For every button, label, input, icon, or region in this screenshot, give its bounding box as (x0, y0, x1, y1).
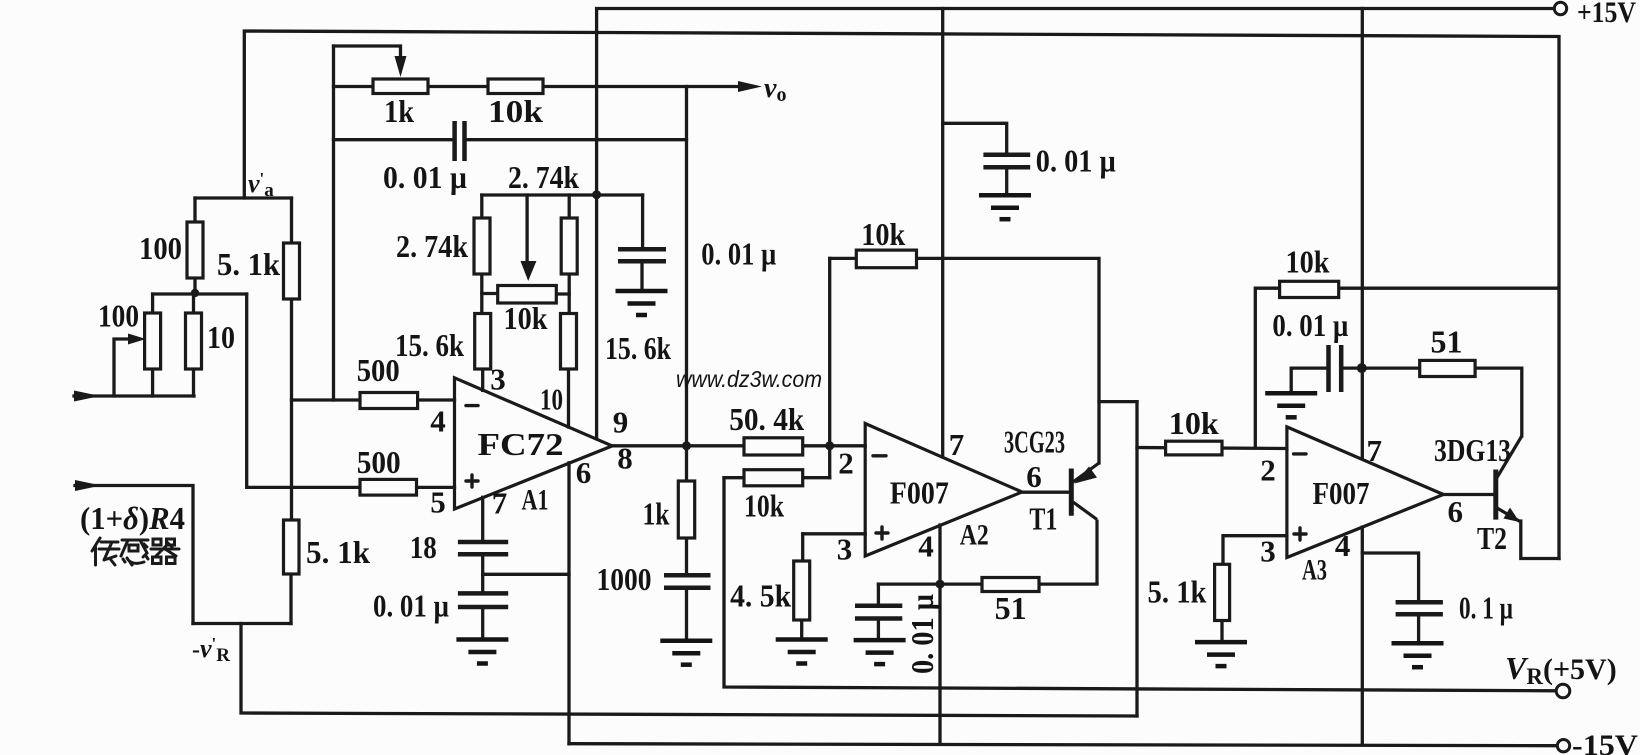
svg-text:500: 500 (357, 352, 400, 388)
ground (4.5k) (776, 640, 828, 664)
wire: A1 inverting input line (292, 398, 455, 401)
svg-text:10k: 10k (744, 488, 784, 524)
node v'a: horizontal wire (195, 196, 292, 199)
svg-text:15. 6k: 15. 6k (395, 327, 464, 363)
svg-text:5. 1k: 5. 1k (217, 246, 280, 282)
wire: 100 lower resistor lead (151, 294, 154, 396)
svg-text:0. 01 µ: 0. 01 µ (701, 236, 776, 272)
wire: 4.5k upper lead (801, 534, 804, 561)
op-amp A3 F007 triangle (1287, 427, 1444, 558)
resistor 50.4k (A1 to A2) (744, 438, 803, 455)
wire: -15V bottom rail (569, 744, 1557, 746)
resistor 51 (T1 collector) (982, 578, 1039, 592)
svg-text:0. 01 µ: 0. 01 µ (383, 159, 467, 195)
capacitor 0.01u (A1 pin 7 lower) (458, 591, 508, 596)
wire: 1k to 1000 cap (685, 538, 688, 574)
arrow: 10k pot wiper (down) (521, 261, 537, 281)
label sensor chinese 传感器 (92, 538, 179, 565)
svg-text:4: 4 (1335, 528, 1351, 563)
capacitor 0.01u (A3 comp), vertical plates (1326, 345, 1331, 392)
resistor 1k (A1 output) (678, 481, 694, 538)
wire: bridge junction horizontal (153, 292, 247, 295)
wire: 10k pot right lead (556, 292, 569, 295)
svg-text:F007: F007 (890, 475, 949, 511)
wire: 10k pot left lead (482, 292, 498, 295)
svg-text:1k: 1k (643, 496, 670, 532)
wire: 18/0.01u caps midpoint (481, 556, 484, 593)
svg-text:3DG13: 3DG13 (1434, 432, 1511, 468)
wire: A2 output to T1 base (1022, 491, 1071, 494)
potentiometer 1k (A1 feedback trim) (373, 79, 428, 94)
arrow: input 1 (74, 391, 100, 402)
node -v'R: horizontal wire (193, 622, 291, 625)
svg-text:FC72: FC72 (478, 426, 564, 462)
svg-text:A3: A3 (1302, 554, 1327, 587)
wire: 5.1k upper leads and mid vertical (290, 198, 293, 520)
junction: A1 output node (682, 441, 691, 450)
wire: input 1 line (74, 394, 194, 397)
svg-text:18: 18 (410, 529, 437, 565)
junction: A2 + network node (936, 580, 945, 589)
A2 plus symbol (876, 531, 888, 534)
A3 plus symbol (1294, 532, 1306, 535)
svg-text:9: 9 (613, 405, 629, 440)
wire: 0.01u feedback cap line right (467, 138, 687, 141)
wire: 10k pot wiper arrow (525, 195, 528, 262)
svg-text:10: 10 (540, 382, 563, 417)
wire: pin7 decoupling cap stub (943, 123, 1007, 153)
wire: T-network cap lower lead (640, 262, 643, 289)
svg-text:7: 7 (492, 486, 508, 521)
svg-text:T1: T1 (1029, 501, 1057, 537)
wire: 100 top resistor leads (193, 198, 196, 294)
resistor 2.74k (right T-network) (561, 218, 577, 274)
svg-text:3CG23: 3CG23 (1004, 424, 1065, 460)
op-amp A1 FC72 triangle (455, 378, 613, 509)
junction: bridge node (191, 289, 199, 297)
wire: v_o output line (543, 85, 740, 88)
wire: input 2 line (75, 486, 193, 624)
transistor T2 3DG13 (NPN) (1496, 436, 1522, 522)
wire: 51/0.01u node line (878, 582, 1097, 585)
wire: A3 pin 7 vertical to +15V (1361, 9, 1364, 458)
svg-text:100: 100 (98, 298, 139, 334)
svg-text:6: 6 (1447, 494, 1463, 529)
junction: A2 inverting input node (825, 441, 834, 450)
resistor 500 (A1 - input) (360, 393, 418, 409)
wire: T2 emitter to v'a riser (1521, 521, 1559, 559)
wire: 0.01u feedback cap line (334, 138, 453, 141)
svg-text:50. 4k: 50. 4k (729, 401, 804, 437)
svg-text:4: 4 (430, 404, 446, 439)
wire: 2.74k T-network top line (482, 193, 643, 196)
wire: vertical from 1k pot to - input (332, 46, 335, 400)
capacitor 0.01u (T-network node to ground) (618, 247, 666, 252)
resistor 51 (T2 collector) (1420, 360, 1475, 376)
svg-text:10k: 10k (504, 300, 548, 336)
wire: 10k to A3 inverting input (1137, 448, 1287, 449)
wire: 1k pot left lead (334, 85, 374, 88)
resistor 4.5k (A2 + input) (794, 561, 810, 620)
svg-text:500: 500 (357, 444, 401, 480)
svg-text:7: 7 (1366, 433, 1382, 468)
svg-text:2. 74k: 2. 74k (396, 228, 468, 264)
svg-text:F007: F007 (1313, 475, 1370, 511)
resistor 10k (A3 feedback) (1280, 281, 1339, 297)
wire: pin 3 lead of A1 (481, 369, 484, 390)
svg-text:8: 8 (617, 441, 633, 476)
wire: trimmer wiper of lower 100 (114, 339, 132, 396)
svg-text:5. 1k: 5. 1k (306, 534, 370, 570)
resistor 5.1k (upper right bridge arm) (284, 243, 300, 299)
capacitor 18 (A1 pin 7) (458, 540, 508, 545)
ground (A3 comp cap) (1265, 393, 1317, 417)
potentiometer 10k (T-network) (498, 286, 557, 304)
svg-text:10k: 10k (488, 93, 543, 129)
wire: right 2.74k branch (568, 195, 571, 314)
wire: T-network cap drop (641, 195, 644, 248)
terminal: +15V (1554, 2, 1566, 14)
svg-text:0. 01 µ: 0. 01 µ (1272, 307, 1348, 343)
svg-text:0. 01 µ: 0. 01 µ (373, 588, 449, 624)
T2 emitter arrow (points out, NPN) (1504, 508, 1520, 523)
A3 minus symbol (1294, 452, 1306, 455)
wire: A3 output to T2 base (1443, 493, 1495, 496)
resistor 15.6k (left, to pin 3) (475, 314, 491, 370)
wire: A3 10k feedback riser (1255, 288, 1558, 448)
svg-text:0. 1 µ: 0. 1 µ (1459, 590, 1513, 626)
wire: pin 10 lead of A1 (567, 369, 570, 427)
wire: A2 + input line (803, 532, 866, 535)
wire: comp node to 51 and T2 collector (1343, 368, 1522, 436)
wire: +15V top rail (597, 9, 1554, 439)
svg-text:7: 7 (949, 427, 965, 462)
ground (A2 decoupling cap) (979, 195, 1031, 219)
svg-text:10: 10 (207, 319, 235, 355)
terminal: -15V (1557, 740, 1569, 752)
resistor 10k (A2 lower input) (744, 470, 803, 486)
svg-text:3: 3 (490, 362, 506, 397)
svg-text:5: 5 (430, 485, 446, 520)
wire: decoupling cap ground lead (1005, 169, 1008, 194)
ground (A2 + network cap) (854, 640, 906, 664)
wire: 0.01u cap to ground lead (481, 608, 484, 636)
wire: 1k pot wiper stub with arrow (334, 46, 401, 58)
arrow: 1k pot wiper (down) (395, 56, 407, 77)
svg-text:1k: 1k (384, 93, 414, 129)
svg-text:51: 51 (1431, 324, 1463, 360)
wire: A2 + network cap to ground (877, 620, 880, 639)
svg-text:10k: 10k (861, 216, 905, 252)
wire: 5.1k lower to -v'R (289, 574, 292, 624)
wire: 1000 cap to ground (685, 589, 688, 638)
wire: T1 emitter branch to -v'R drop (1099, 400, 1137, 403)
wire: caps midpoint tie to pin6 line (483, 573, 569, 576)
wire: 10 resistor lead (192, 294, 195, 396)
svg-text:VR(+5V): VR(+5V) (1505, 650, 1617, 689)
svg-text:3: 3 (1260, 534, 1276, 569)
arrow: v_o output (738, 81, 762, 92)
wire: 4.5k to ground (800, 620, 803, 637)
ground (0.1u cap) (1392, 643, 1444, 667)
resistor 100 (upper bridge arm) (187, 222, 203, 278)
svg-text:3: 3 (837, 532, 853, 567)
wire: V_R output line (724, 478, 1556, 691)
svg-text:0. 01 µ: 0. 01 µ (1036, 143, 1116, 179)
wire: left 2.74k branch (480, 195, 483, 314)
T1 emitter arrow (points into base, PNP) (1075, 467, 1098, 484)
svg-text:4: 4 (918, 529, 934, 564)
svg-text:4. 5k: 4. 5k (730, 578, 791, 614)
arrow: trimmer wiper tip (128, 334, 146, 345)
resistor 10 (bridge arm) (186, 313, 202, 369)
capacitor 0.01u (A2 supply decoupling) (983, 153, 1030, 158)
svg-text:2: 2 (838, 446, 854, 481)
svg-text:100: 100 (139, 230, 182, 266)
wire: A1 pin 6 drop to -15V (567, 463, 570, 744)
ground (T-network cap) (616, 291, 668, 315)
resistor 10k (to A3 - input) (1166, 441, 1222, 455)
arrow: input 2 (75, 480, 101, 491)
svg-text:+15V: +15V (1577, 0, 1636, 29)
svg-text:www.dz3w.com: www.dz3w.com (676, 366, 822, 392)
svg-text:5. 1k: 5. 1k (1148, 574, 1207, 610)
svg-text:(1+δ)R4: (1+δ)R4 (80, 500, 185, 536)
junction: T-network / +15V vertical node (592, 190, 601, 199)
resistor 100 (lower bridge arm, trimmed) (145, 313, 161, 369)
capacitor 1000 (A1 output node) (664, 573, 711, 578)
op-amp A2 F007 triangle (865, 424, 1022, 557)
wire: A3 comp cap line left (1291, 368, 1326, 391)
svg-text:0. 01 µ: 0. 01 µ (904, 594, 940, 674)
resistor 15.6k (right, to pin 10) (561, 314, 577, 370)
capacitor 0.1u (A3 pin 4) (1396, 600, 1443, 605)
wire: A3 + input line (1223, 536, 1287, 565)
resistor 5.1k (A3 + input) (1215, 564, 1230, 620)
wire: 0.1u cap to ground (1417, 616, 1420, 642)
wire: v_o drop to A1 output node (685, 87, 688, 446)
svg-text:2. 74k: 2. 74k (508, 159, 579, 195)
resistor 10k (A1 feedback) (488, 79, 543, 94)
wire: 1k output resistor leads (685, 446, 688, 481)
svg-text:6: 6 (1026, 459, 1042, 494)
wire: A1 pin 7 lead (481, 497, 484, 540)
resistor 500 (A1 + input) (360, 479, 417, 495)
svg-text:A1: A1 (522, 484, 549, 517)
resistor 10k (A2 feedback) (856, 250, 916, 268)
wire: A1 output line to A2 (612, 444, 865, 447)
resistor 5.1k (sensor leg) (284, 520, 300, 574)
svg-text:-15V: -15V (1572, 729, 1638, 755)
ground (A1 pin7 caps) (456, 640, 508, 664)
wire: A3 pin4 branch to 0.1u cap (1362, 553, 1418, 601)
wire: -v'R drop (241, 624, 1137, 717)
junction: A3 comp node on pin7 line (1357, 363, 1367, 373)
svg-text:10k: 10k (1286, 244, 1330, 280)
resistor 2.74k (left T-network) (474, 218, 490, 274)
svg-text:2: 2 (1260, 453, 1276, 488)
svg-text:A2: A2 (960, 519, 989, 552)
wire: A3 5.1k to ground (1220, 621, 1223, 641)
wire: A2 10k feedback top line (830, 258, 1099, 463)
svg-text:15. 6k: 15. 6k (605, 330, 671, 366)
A1 minus symbol (466, 404, 478, 407)
wire: A2 + network cap lead (877, 584, 880, 604)
A2 minus symbol (873, 454, 886, 457)
svg-text:51: 51 (995, 590, 1027, 626)
wire: riser to A1 + input (247, 294, 455, 487)
wire: A2 inverting node riser (828, 258, 831, 477)
ground (1000 cap) (660, 641, 712, 665)
svg-text:6: 6 (576, 455, 592, 490)
svg-text:10k: 10k (1169, 405, 1219, 441)
capacitor 0.01u (A1 feedback), vertical plates (452, 121, 457, 161)
A1 plus symbol (466, 479, 478, 482)
terminal: V_R (+5V) (1556, 684, 1570, 698)
transistor T1 3CG23 (PNP) (1071, 463, 1099, 584)
wire: A3 pin 4 drop to -15V (1361, 527, 1364, 744)
wire: A2 pin 7 vertical to +15V (941, 9, 944, 457)
svg-text:T2: T2 (1477, 520, 1507, 556)
wire: A2 10k lower line (724, 476, 830, 479)
capacitor 0.01u (A2 + network) (855, 604, 902, 609)
wire: 1k pot to 10k (428, 85, 488, 88)
wire: v'a rail (second top rail) (244, 31, 1559, 559)
svg-text:1000: 1000 (597, 561, 652, 597)
wire: vertical joining emitter net down to -v'R line (1135, 402, 1138, 716)
wire: A2 pin 4 drop to -15V (938, 525, 941, 744)
ground (A3 5.1k) (1195, 642, 1247, 666)
